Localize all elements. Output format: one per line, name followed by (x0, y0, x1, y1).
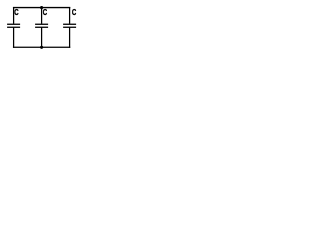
capacitor C2 (35, 7, 48, 48)
svg-text:C: C (72, 7, 77, 17)
wire bottom rail (13, 46, 70, 48)
svg-text:C: C (43, 7, 48, 17)
capacitor C1 (7, 7, 20, 48)
junction dot bottom node (40, 46, 43, 49)
svg-text:C: C (14, 7, 19, 17)
wire top rail (13, 7, 70, 9)
junction dot top node (40, 6, 43, 9)
capacitor C3 (63, 7, 76, 48)
